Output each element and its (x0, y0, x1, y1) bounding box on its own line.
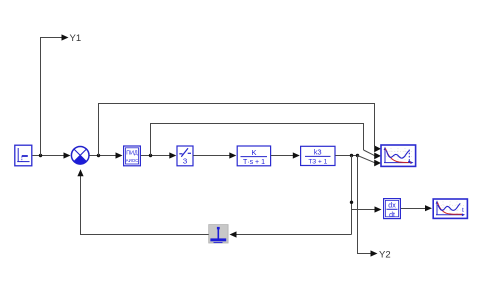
wire: feedforward line 2 (y=123.5) (151, 124, 364, 156)
wire: feedforward line 1 (top, y=103.5) (99, 104, 375, 156)
first-order block k3/(T3+1) (301, 146, 335, 165)
wire: feedback from delay block to summer bottom (81, 176, 209, 235)
wire: source output to summer (33, 152, 71, 158)
node: junction dot feedback tap 2 (149, 154, 152, 157)
first-order block K/(T·s+1) (237, 146, 270, 166)
wire: tap A vertical down (351, 156, 353, 235)
wire: diagonal into scope1 middle input (364, 150, 376, 156)
svg-text:АИОС: АИОС (126, 158, 139, 163)
node: junction dot tap B (x=357) (356, 154, 359, 157)
svg-text:T·s + 1: T·s + 1 (243, 159, 265, 166)
PID controller block (124, 146, 141, 166)
wire: scope1 input arrowheads (374, 145, 381, 166)
derivative block dx/dt (384, 199, 401, 219)
transport delay block (gray) (209, 225, 228, 243)
wire: PID output to delay-element block (141, 152, 177, 158)
wire: Y1 tap vertical (41, 38, 63, 156)
wire: summer output to PID (89, 152, 122, 158)
wire: Y2 arrowhead (371, 250, 378, 256)
wire: Y1 arrowhead (62, 34, 69, 40)
wire: k3 output to taps (335, 155, 357, 157)
svg-text:Y1: Y1 (70, 33, 82, 44)
wire: arrowhead up into summer (77, 169, 83, 176)
source block (step input) (15, 145, 32, 166)
svg-text:Y2: Y2 (379, 250, 391, 261)
wire: tap B vertical down to Y2 (358, 156, 372, 254)
wire: branch to dx/dt block (352, 206, 382, 212)
wire: diagonal into scope1 bottom input (358, 156, 376, 163)
svg-text:kЗ: kЗ (314, 150, 322, 157)
wire: K block output to k3 block (271, 152, 300, 158)
svg-text:dx: dx (388, 203, 396, 210)
svg-text:t: t (462, 207, 464, 214)
node: junction dot tap A (x=351) (350, 154, 353, 157)
node: junction dot on source output (Y1 tap) (39, 154, 42, 157)
svg-text:TЗ + 1: TЗ + 1 (308, 159, 327, 166)
svg-text:K: K (251, 148, 256, 157)
wire: З output to K/(Ts+1) (193, 152, 236, 158)
svg-text:З: З (183, 157, 188, 166)
wire: dx/dt output to scope2 (401, 205, 432, 211)
wire: feedback from tap A to transport delay block (230, 231, 352, 237)
node: junction dot on tap A vertical (350, 201, 353, 204)
svg-text:ПИД: ПИД (126, 151, 138, 157)
summer (comparison) circle with X, bottom quadrant filled (71, 147, 89, 165)
scope2 (graph display) (433, 199, 467, 218)
node: junction dot feedback tap 1 (97, 154, 100, 157)
nonlinearity block (З) (177, 146, 193, 166)
svg-text:dt: dt (389, 212, 395, 219)
scope1 (graph display) (381, 145, 416, 166)
